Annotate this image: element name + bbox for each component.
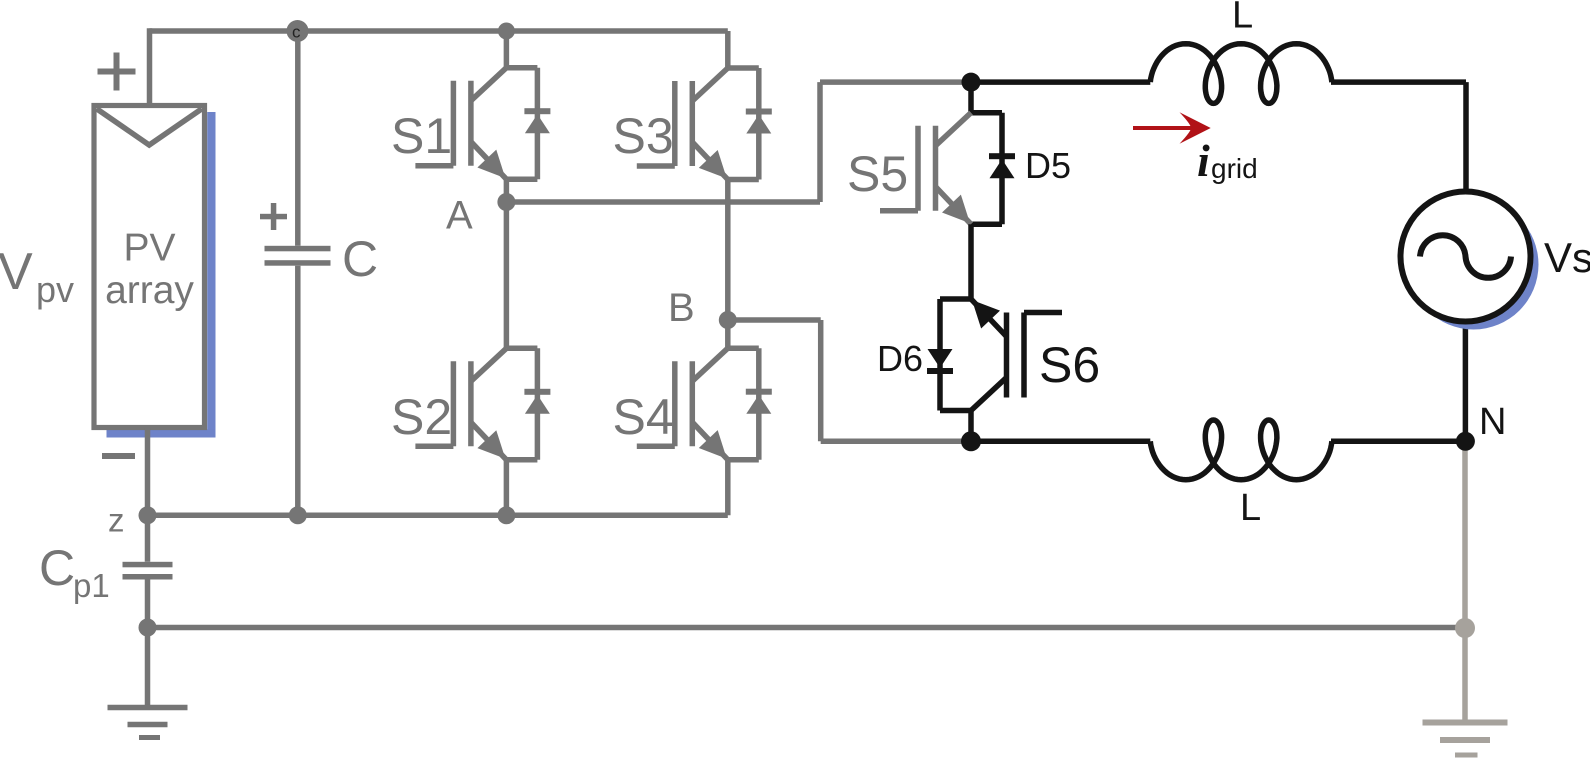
svg-text:S1: S1: [391, 108, 452, 164]
svg-text:L: L: [1240, 487, 1261, 529]
svg-text:grid: grid: [1211, 153, 1258, 184]
svg-text:PV: PV: [123, 227, 175, 270]
svg-text:S3: S3: [613, 108, 674, 164]
svg-text:S5: S5: [847, 146, 908, 202]
svg-text:c: c: [292, 23, 301, 42]
svg-text:B: B: [668, 286, 695, 330]
svg-text:C: C: [39, 540, 75, 596]
svg-text:N: N: [1479, 401, 1506, 443]
svg-text:i: i: [1197, 135, 1210, 186]
svg-text:S6: S6: [1039, 337, 1100, 393]
svg-text:L: L: [1232, 0, 1253, 37]
svg-text:array: array: [105, 269, 194, 312]
svg-text:pv: pv: [36, 269, 74, 310]
svg-text:V: V: [0, 243, 33, 301]
svg-text:D6: D6: [877, 338, 923, 379]
svg-text:z: z: [108, 502, 125, 539]
svg-text:p1: p1: [73, 567, 110, 604]
svg-text:S2: S2: [391, 389, 452, 445]
svg-text:Vs: Vs: [1544, 234, 1590, 281]
svg-text:S4: S4: [613, 389, 674, 445]
svg-text:A: A: [446, 194, 473, 238]
svg-text:D5: D5: [1025, 145, 1071, 186]
svg-text:C: C: [342, 231, 378, 287]
